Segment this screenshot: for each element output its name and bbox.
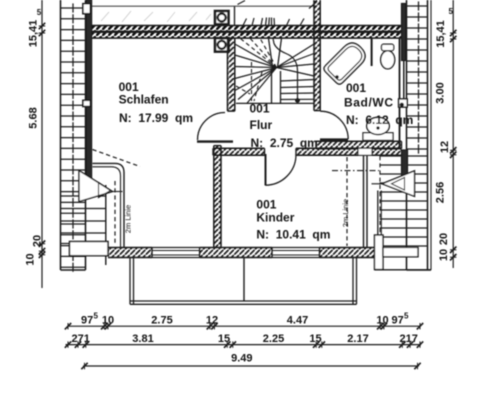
balcony: [129, 258, 131, 305]
svg-text:2.17: 2.17: [347, 333, 368, 345]
svg-text:N: 10.41 qm: N: 10.41 qm: [256, 227, 330, 241]
svg-text:4.47: 4.47: [287, 315, 308, 327]
schlafen 2m diagonal: [93, 150, 141, 167]
window 1: [152, 250, 200, 252]
eaves line: [88, 5, 316, 7]
right section arrow: [382, 171, 415, 197]
svg-text:3.81: 3.81: [132, 333, 153, 345]
stair bottom edge: [236, 102, 314, 104]
column bottom: [215, 38, 229, 51]
kinder north wall seg2: [296, 148, 358, 155]
bad stub wall: [371, 38, 373, 66]
svg-text:Flur: Flur: [250, 118, 273, 132]
svg-text:2.25: 2.25: [263, 333, 284, 345]
schlafen 2m vertical: [114, 181, 116, 244]
left lining bar: [86, 0, 91, 190]
stair rays above wall (stubs): [243, 19, 247, 26]
bad door: [320, 138, 348, 140]
right dashed line: [379, 156, 381, 248]
left stair treads: [61, 195, 106, 197]
right lining bar: [402, 4, 406, 61]
sink: [363, 133, 393, 141]
kinder north wall threshold: [358, 148, 372, 155]
roof slope hatch (faint): [101, 12, 109, 21]
svg-text:10: 10: [438, 249, 450, 261]
bathtub: [322, 39, 369, 86]
svg-text:217: 217: [400, 333, 418, 345]
stair right wall: [314, 0, 320, 111]
section line: [332, 170, 379, 172]
svg-text:2.75: 2.75: [151, 315, 172, 327]
svg-text:10: 10: [25, 253, 37, 265]
svg-text:N: 17.99 qm: N: 17.99 qm: [119, 111, 193, 125]
bottom wall seg1: [108, 248, 152, 258]
svg-text:5: 5: [449, 7, 454, 16]
window 2 (balcony door): [272, 250, 320, 252]
left section arrow: [79, 171, 113, 202]
bad east wall: [399, 38, 401, 149]
left dim line: [41, 0, 43, 288]
svg-text:N: 2.75 qm: N: 2.75 qm: [251, 136, 318, 150]
stair eye: [271, 69, 273, 103]
svg-text:5: 5: [94, 312, 99, 321]
column top: [215, 11, 229, 24]
attic opening outline: [234, 6, 236, 25]
stair walk line: [273, 39, 298, 101]
bottom wall lintel box: [70, 242, 109, 256]
svg-text:Kinder: Kinder: [256, 211, 294, 225]
svg-text:5.68: 5.68: [28, 107, 40, 128]
svg-text:5: 5: [404, 312, 409, 321]
svg-text:5: 5: [37, 8, 42, 17]
svg-text:001: 001: [346, 81, 366, 95]
right dim line: [452, 0, 454, 268]
kinder 2m line: [346, 157, 348, 246]
toilet: [382, 44, 394, 50]
dim row1 line: [68, 325, 420, 327]
top wall: [91, 26, 402, 32]
kinder west wall: [214, 146, 221, 248]
svg-text:20: 20: [32, 235, 44, 247]
svg-text:20: 20: [438, 233, 450, 245]
stair left wall: [228, 38, 235, 111]
svg-text:15,41: 15,41: [28, 20, 40, 48]
svg-text:Schlafen: Schlafen: [119, 93, 169, 107]
svg-text:10: 10: [376, 315, 388, 327]
svg-text:12: 12: [439, 141, 451, 153]
svg-text:271: 271: [72, 333, 90, 345]
svg-text:Bad/WC: Bad/WC: [344, 96, 394, 110]
right duct: [377, 191, 379, 248]
dim row3 line: [83, 365, 419, 367]
svg-text:97: 97: [81, 315, 93, 327]
kinder east wall: [363, 155, 365, 247]
svg-text:2.56: 2.56: [435, 182, 447, 203]
svg-text:15: 15: [218, 333, 230, 345]
right lower lining bar: [402, 150, 408, 191]
stair dashed projection: [240, 38, 277, 67]
svg-text:15: 15: [309, 333, 321, 345]
svg-text:2m Linie: 2m Linie: [341, 199, 350, 227]
svg-text:2m Linie: 2m Linie: [124, 205, 133, 233]
bottom wall seg3: [320, 248, 375, 258]
bottom right white pieces: [375, 235, 384, 270]
bad south wall: [316, 141, 402, 149]
kinder north wall seg3: [372, 148, 402, 155]
svg-text:9.49: 9.49: [231, 353, 252, 365]
left party wall: [60, 0, 62, 270]
kinder north wall seg1: [213, 148, 265, 155]
svg-text:001: 001: [250, 102, 270, 116]
svg-text:3.00: 3.00: [435, 82, 447, 103]
bottom wall seg2: [200, 248, 272, 258]
svg-text:12: 12: [206, 315, 218, 327]
right stair treads: [380, 155, 428, 157]
right party wall: [406, 0, 408, 270]
left duct: [93, 163, 125, 247]
dim row2 line: [66, 344, 422, 346]
stair treads fan: [235, 44, 277, 68]
svg-text:15,41: 15,41: [435, 20, 447, 48]
svg-text:97: 97: [392, 315, 404, 327]
schlafen door: [197, 140, 233, 142]
kinder door: [265, 154, 267, 186]
svg-text:10: 10: [102, 315, 114, 327]
svg-text:N: 6.12 qm: N: 6.12 qm: [346, 113, 413, 127]
